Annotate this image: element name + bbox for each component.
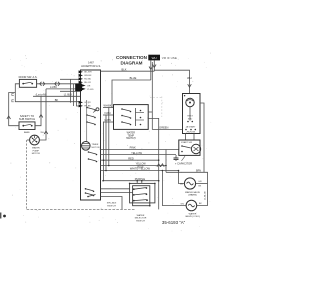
timer cam switch 1 [86, 107, 88, 109]
svg-text:(WARM): (WARM) [188, 194, 197, 197]
svg-text:VI-BN: VI-BN [104, 119, 111, 122]
svg-text:MOTOR: MOTOR [92, 147, 101, 149]
title part-number black tag [148, 55, 160, 61]
svg-text:WH-BK: WH-BK [84, 75, 92, 77]
svg-text:RED: RED [128, 156, 134, 160]
door switch box [19, 79, 36, 87]
svg-text:SWITCH: SWITCH [107, 205, 116, 207]
svg-text:SELECTOR: SELECTOR [135, 218, 147, 220]
timer bottom contacts [85, 188, 87, 190]
stray scan dot bottom left [3, 215, 6, 218]
wire temp switch to GREEN [148, 111, 152, 113]
svg-text:GREEN: GREEN [159, 126, 168, 130]
timer box [81, 70, 101, 200]
svg-text:DIAGRAM: DIAGRAM [121, 60, 143, 65]
svg-text:WH: WH [152, 56, 157, 60]
svg-text:WATER: WATER [189, 212, 197, 215]
svg-text:GN: GN [198, 181, 202, 183]
safety switch box [19, 122, 35, 130]
title connector drops [150, 60, 152, 80]
svg-text:L1 BLK: L1 BLK [64, 93, 73, 97]
junction dots [103, 159, 105, 161]
svg-text:SWITCH: SWITCH [126, 137, 136, 140]
bus wire PURPLE [101, 159, 159, 161]
timer pins [75, 70, 85, 107]
svg-text:PUMP: PUMP [33, 150, 40, 152]
motor box to start switch links [185, 134, 187, 141]
chassis rail left (dashed) [26, 140, 28, 209]
warm valve left feed [179, 171, 185, 184]
svg-text:WATER VALVE: WATER VALVE [185, 191, 201, 194]
wire ghost (print bleed) [161, 97, 163, 118]
svg-text:PURPLE: PURPLE [135, 177, 146, 181]
wire door switch to timer [37, 83, 81, 85]
water valve cold [186, 200, 197, 211]
wire safety left riser [9, 93, 19, 126]
motor internal wire [189, 107, 191, 121]
wire WH-BK into temp switch [103, 107, 114, 109]
motor right rail [200, 103, 204, 172]
svg-text:OR: OR [87, 85, 91, 87]
wire pump left to chassis rail [27, 139, 30, 141]
water level switch inner box [133, 186, 150, 206]
svg-text:(La-to-M): (La-to-M) [36, 93, 47, 97]
water temp switch feed verticals [103, 122, 105, 181]
wire pump right riser [39, 89, 46, 140]
svg-text:WH: WH [187, 76, 191, 80]
wire bundle verticals to timer pins [70, 79, 72, 102]
safety switch contacts [22, 125, 24, 127]
connector on door wire 2 [55, 82, 60, 86]
svg-text:GY-PK: GY-PK [84, 102, 91, 104]
svg-text:BK-WH: BK-WH [84, 72, 92, 74]
wire VI-BU into temp switch [103, 114, 114, 116]
svg-text:WATER: WATER [32, 147, 40, 150]
svg-text:BK: BK [55, 98, 59, 102]
wire (La-to-M) [33, 95, 81, 97]
svg-text:DOOR SW. A.S.: DOOR SW. A.S. [19, 75, 38, 79]
svg-text:START SW: START SW [181, 141, 193, 144]
svg-text:BARE: BARE [24, 131, 30, 134]
timer motor circle [82, 142, 91, 151]
svg-text:RD-BU: RD-BU [84, 79, 91, 81]
motor protector circle [186, 98, 194, 106]
water valve warm [184, 178, 195, 189]
connector chevron on motor drop [188, 84, 192, 87]
timer lower contacts [88, 151, 90, 153]
door switch contacts [22, 83, 24, 85]
bus wire YELLOW [101, 149, 179, 151]
wire L1 BK [46, 88, 81, 90]
svg-text:+RUN BK: +RUN BK [186, 131, 196, 133]
connector brackets far left [12, 93, 14, 101]
svg-text:GN: GN [181, 203, 185, 205]
drive motor box [183, 94, 201, 134]
svg-text:VI-BU: VI-BU [104, 112, 111, 115]
water pump motor circle [30, 135, 40, 145]
svg-text:SWITCH: SWITCH [136, 220, 145, 222]
svg-text:TIMER: TIMER [92, 144, 99, 146]
svg-text:ACCEPTOR A.S.: ACCEPTOR A.S. [81, 64, 101, 68]
svg-text:35-6193 “A”: 35-6193 “A” [162, 220, 186, 225]
wire timer top to title connectors [101, 70, 155, 72]
wire VI-BN into temp switch [103, 121, 114, 123]
bus wire WHITE-YELLOW [101, 170, 179, 172]
wire purple drops to WL switch top [136, 181, 138, 184]
svg-text:+ CAPACITOR: + CAPACITOR [175, 161, 192, 165]
connector chevron on riser [39, 115, 43, 118]
timer internal vertical [86, 100, 88, 142]
svg-text:L1 BK: L1 BK [50, 85, 57, 89]
wire door switch left drop [15, 84, 80, 102]
svg-text:BN: BN [180, 183, 183, 185]
start switch circle [191, 144, 200, 153]
timer cam switch 2 [86, 114, 88, 116]
wire GREEN to motor [152, 129, 182, 131]
wire to water level switch left [101, 188, 130, 190]
svg-text:PINK: PINK [130, 146, 136, 150]
svg-text:MOTOR: MOTOR [32, 153, 41, 155]
wire temp switch to WL switch right rail [148, 118, 159, 209]
cold valve left feed [162, 171, 186, 206]
scan speckle noise [10, 51, 211, 231]
wire safety right riser [35, 96, 41, 125]
svg-text:SUB SWITCH: SUB SWITCH [19, 117, 35, 121]
svg-text:BLK: BLK [122, 67, 127, 71]
wire title to motor [154, 70, 189, 93]
start switch box [179, 140, 200, 155]
connector chevrons on risers [157, 164, 161, 167]
svg-text:BU-GY: BU-GY [84, 82, 91, 84]
warm valve right link [196, 183, 208, 185]
svg-text:L1-BLUE: L1-BLUE [205, 191, 207, 200]
bus wire YELLOW-BLUE [101, 165, 167, 167]
wire BLUE [112, 80, 151, 108]
water temp switch box [114, 105, 149, 130]
svg-text:WH-BK: WH-BK [104, 104, 112, 107]
connector chevron on pump riser [44, 131, 48, 134]
bus wire PURPLE lower [103, 180, 159, 182]
water level switch contacts [133, 188, 135, 190]
svg-text:BRN: BRN [196, 170, 201, 173]
svg-text:SPD: SPD [188, 118, 193, 120]
temp switch internal contacts [121, 108, 123, 110]
svg-text:BLUE: BLUE [130, 76, 137, 80]
svg-text:SPD-BLN: SPD-BLN [107, 203, 117, 205]
title CONNECTION DIAGRAM [116, 55, 148, 65]
svg-text:WATER: WATER [137, 214, 145, 217]
timer cam switch 3 [86, 121, 88, 123]
svg-text:WHITE-YELLOW: WHITE-YELLOW [130, 167, 151, 171]
svg-text:VR IF USE: VR IF USE [162, 56, 177, 60]
wire top jog [60, 78, 81, 80]
connector on door wire [40, 82, 45, 86]
svg-text:JA START: JA START [185, 126, 196, 129]
timer pin labels [84, 72, 94, 108]
wire yellow into start switch riser [165, 150, 167, 173]
wire vertical right of title [151, 62, 153, 130]
svg-text:YL-RD: YL-RD [87, 89, 94, 91]
water level switch outer box [130, 183, 155, 203]
svg-text:YELLOW: YELLOW [131, 151, 142, 155]
wire warm rail [166, 172, 208, 205]
chassis rail bottom [27, 208, 135, 210]
svg-text:TEST: TEST [187, 116, 193, 118]
timer terminal circle [96, 108, 99, 111]
bus wire RED [101, 154, 177, 156]
svg-text:VALVE (COLD): VALVE (COLD) [185, 215, 200, 218]
capacitor connection [175, 155, 177, 158]
